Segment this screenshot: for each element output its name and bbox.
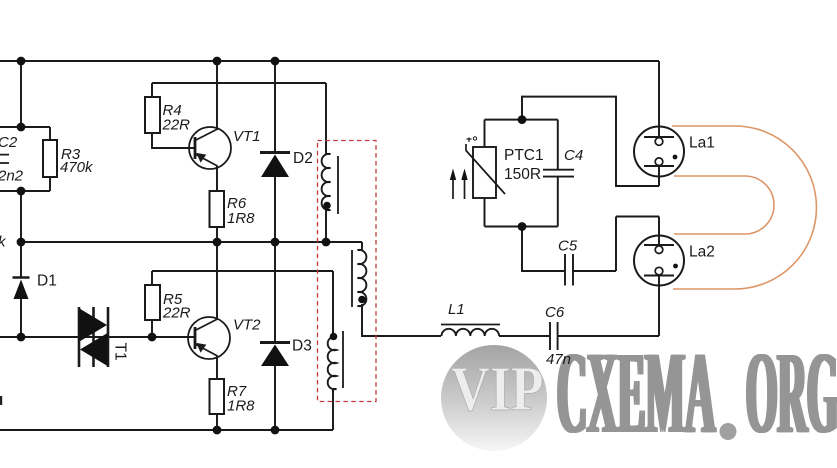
wire bottom bus (0, 429, 333, 431)
resistor R5 (145, 285, 160, 320)
wire mid bus corner to winding W2 (361, 242, 363, 250)
wire VT2 collector (216, 242, 218, 320)
wire R6 to mid bus (216, 227, 218, 242)
svg-text:k: k (0, 234, 7, 251)
wire C5 path (522, 217, 659, 272)
capacitor C5 (565, 254, 573, 286)
wire winding W1 top feed (325, 83, 327, 154)
wire diac line (0, 336, 195, 338)
watermark circle (441, 345, 547, 451)
diac T1 (79, 307, 108, 367)
watermark VIP text (451, 353, 544, 424)
transformer W1 phase dot (323, 202, 331, 210)
inductor L1 (441, 325, 500, 337)
wire PTC bottom rail (485, 226, 558, 228)
thermistor PTC1 (466, 137, 505, 198)
transistor VT2 (188, 317, 230, 359)
lamp La1 (634, 127, 684, 177)
wire winding W3 bottom to bottom bus (332, 389, 334, 430)
svg-text:C5: C5 (558, 238, 578, 255)
wire VT2 emitter to R7 (216, 356, 218, 379)
svg-text:VT2: VT2 (233, 317, 261, 334)
resistor R7 (210, 379, 225, 414)
wire mid bus (21, 241, 362, 243)
capacitor C6 (550, 322, 558, 350)
capacitor C4 (543, 170, 574, 177)
resistor R6 (210, 191, 225, 227)
lamp tube outline (orange) (672, 126, 816, 289)
wire PTC node to La1 bottom (522, 97, 659, 186)
svg-text:C4: C4 (564, 147, 583, 164)
wire R4 top feed (152, 83, 326, 97)
svg-text:T1: T1 (112, 343, 129, 361)
resistor R4 (145, 97, 160, 133)
wire R3 branch (49, 127, 51, 191)
wire VT1 emitter to R6 (216, 166, 218, 191)
wire C2/R3 top rail (0, 126, 50, 128)
wire La2 bottom out (658, 276, 660, 337)
svg-text:470k: 470k (60, 159, 94, 176)
transistor VT1 (189, 127, 231, 169)
thermistor PTC1 arrows (450, 169, 468, 200)
junction node dots (17, 57, 527, 435)
diode D1 (13, 278, 30, 300)
partial glyph at left edge lower (0, 396, 2, 405)
svg-text:1R8: 1R8 (227, 210, 255, 227)
transformer winding W3 (bottom) (328, 331, 343, 389)
wire R4 to VT1 base (152, 133, 195, 148)
wire left branch vertical (20, 61, 22, 127)
transformer W2 phase dot (358, 296, 366, 304)
watermark dot (720, 423, 737, 440)
svg-text:22R: 22R (162, 305, 191, 322)
diode D2 (260, 153, 290, 178)
svg-text:VT1: VT1 (233, 128, 261, 145)
wire D1 branch (20, 242, 22, 337)
wire top bus to La1 top (658, 61, 660, 137)
svg-text:150R: 150R (504, 166, 541, 183)
svg-text:1R8: 1R8 (227, 398, 255, 415)
resistor R3 (43, 140, 57, 177)
watermark ORG text (744, 328, 837, 459)
svg-text:D1: D1 (37, 273, 57, 290)
svg-text:L1: L1 (448, 301, 465, 318)
transformer winding W2 (middle) (352, 250, 366, 307)
wire L1 to C6 (499, 335, 550, 337)
wire PTC top rail (485, 119, 558, 121)
wire C6 to La2 (558, 335, 659, 337)
wire VT1 collector (216, 61, 218, 130)
wire D3 branch (274, 242, 276, 430)
svg-text:ORG: ORG (748, 328, 837, 459)
svg-text:22R: 22R (162, 117, 191, 134)
svg-text:PTC1: PTC1 (504, 147, 544, 164)
wire D2 branch (274, 61, 276, 242)
svg-text:CXEMA: CXEMA (559, 328, 717, 459)
svg-text:C2: C2 (0, 134, 18, 151)
svg-text:C6: C6 (545, 304, 565, 321)
wire R7 to bottom bus (216, 414, 218, 430)
capacitor C2 (partial at left edge) (0, 155, 9, 163)
transformer dashed box (318, 141, 377, 402)
svg-text:D2: D2 (293, 150, 313, 167)
lamp La2 (634, 236, 684, 286)
wire left vertical to mid bus (20, 191, 22, 242)
wire winding W2 bottom out (362, 304, 441, 336)
svg-text:La1: La1 (689, 135, 715, 152)
svg-text:La2: La2 (689, 244, 715, 261)
watermark CXEMA text (555, 328, 717, 459)
transformer W3 phase dot (330, 333, 338, 341)
wire R5 bottom (151, 320, 153, 337)
transformer winding W1 (top) (322, 154, 338, 214)
wire top bus (0, 60, 659, 62)
wire C4 branch (557, 120, 559, 227)
svg-text:2n2: 2n2 (0, 168, 24, 185)
svg-text:VIP: VIP (451, 353, 544, 424)
svg-text:D3: D3 (292, 338, 312, 355)
wire winding W1 bottom to mid bus (325, 210, 327, 242)
wire C2/R3 bottom rail (0, 190, 50, 192)
wire PTC left branch (484, 120, 486, 227)
diode D3 (260, 343, 290, 367)
svg-text:47n: 47n (546, 351, 571, 368)
wire R5 top feed to winding W3 (152, 271, 333, 337)
